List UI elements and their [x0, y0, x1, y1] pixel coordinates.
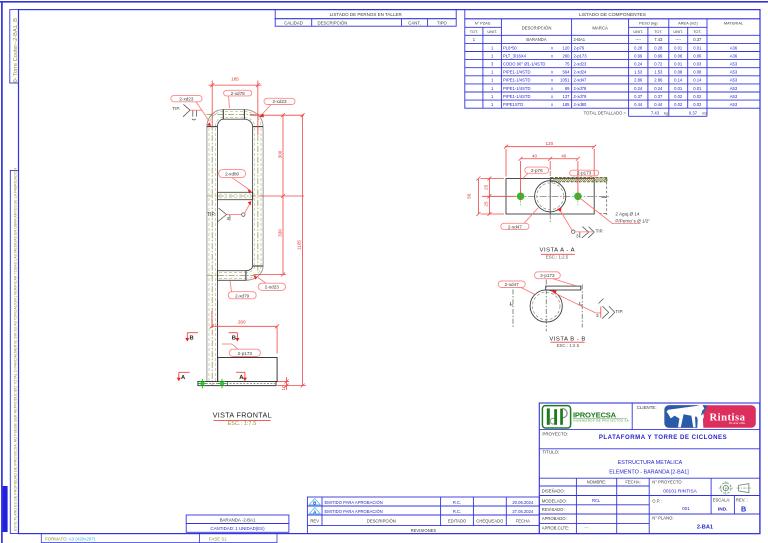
svg-text:PLT_3/16X4: PLT_3/16X4 [503, 53, 527, 58]
svg-text:REVISIONES: REVISIONES [411, 528, 437, 533]
svg-text:0.24: 0.24 [634, 86, 643, 91]
elbow top-left 2-xd23 inner [217, 119, 223, 126]
svg-text:TITULO:: TITULO: [542, 450, 559, 455]
svg-text:m2: m2 [702, 111, 707, 115]
svg-text:PIPE1-1/4STD: PIPE1-1/4STD [503, 86, 530, 91]
svg-text:TIP.: TIP. [596, 228, 604, 233]
svg-text:PL6*50: PL6*50 [503, 45, 517, 50]
svg-text:7.43: 7.43 [651, 110, 660, 115]
svg-text:UNIT.: UNIT. [673, 29, 683, 34]
svg-text:00101 RINTISA: 00101 RINTISA [663, 488, 697, 494]
svg-text:0.99: 0.99 [634, 53, 643, 58]
svg-text:2-xd23: 2-xd23 [272, 99, 286, 104]
pipe 2-xd47 section [535, 181, 566, 212]
svg-text:PIPE1-1/4STD: PIPE1-1/4STD [503, 70, 530, 75]
svg-text:A36: A36 [730, 53, 738, 58]
svg-text:40: 40 [561, 154, 567, 159]
svg-text:PESO (kg): PESO (kg) [639, 21, 658, 26]
svg-text:FORMATO: A3 (420x297): FORMATO: A3 (420x297) [45, 536, 96, 541]
weld arrow + leader [551, 290, 556, 294]
bottom rail 2-xd79 [218, 270, 246, 272]
svg-text:ESCALA:: ESCALA: [713, 498, 731, 503]
svg-text:2.86: 2.86 [654, 78, 663, 83]
dim line 1105 [302, 115, 304, 385]
right pipe 2-xd24 inner [252, 127, 254, 266]
svg-text:2-p76: 2-p76 [574, 45, 585, 50]
rev triangles [309, 499, 320, 505]
elbow hidden arcs BR [246, 266, 261, 278]
svg-text:PIPE1STD: PIPE1STD [503, 102, 523, 107]
svg-text:CODO 90° Ø1-1/4STD: CODO 90° Ø1-1/4STD [503, 62, 545, 67]
svg-text:IND.: IND. [718, 507, 728, 513]
label leaders red [196, 96, 271, 349]
svg-text:7.43: 7.43 [654, 37, 663, 42]
svg-text:N° PLANO:: N° PLANO: [652, 516, 673, 521]
svg-text:2-xd78: 2-xd78 [574, 86, 587, 91]
svg-text:PROYECTO:: PROYECTO: [542, 431, 568, 436]
right pipe 2-xd24 outer [262, 127, 264, 266]
svg-text:ESC.: 1:2.5: ESC.: 1:2.5 [557, 343, 580, 348]
svg-text:2-p76: 2-p76 [531, 168, 543, 173]
left post 2-xd47 inner [217, 127, 219, 382]
svg-text:2-p173: 2-p173 [574, 53, 588, 58]
svg-text:564: 564 [563, 70, 571, 75]
section mark A right [236, 372, 247, 381]
svg-text:VISTA B - B: VISTA B - B [549, 336, 586, 342]
svg-text:1.53: 1.53 [634, 70, 643, 75]
svg-text:10: 10 [281, 385, 286, 391]
svg-text:---: --- [584, 525, 589, 530]
svg-text:0.01: 0.01 [674, 45, 683, 50]
svg-text:TIP.: TIP. [172, 106, 180, 111]
svg-text:EMITIDO PARA APROBACIÓN: EMITIDO PARA APROBACIÓN [325, 509, 383, 514]
svg-text:0.01: 0.01 [693, 86, 702, 91]
svg-text:0.14: 0.14 [693, 78, 702, 83]
svg-text:B: B [313, 501, 316, 506]
svg-text:B: B [190, 336, 194, 342]
svg-text:NOMBRE:: NOMBRE: [587, 480, 607, 485]
svg-text:TIPO: TIPO [437, 20, 448, 25]
svg-text:0.28: 0.28 [634, 45, 643, 50]
projection symbols [721, 483, 749, 494]
svg-text:0.02: 0.02 [674, 102, 683, 107]
svg-text:2 Aguj.Ø 14: 2 Aguj.Ø 14 [615, 211, 639, 216]
svg-text:A36: A36 [730, 45, 738, 50]
svg-text:2-xd47: 2-xd47 [508, 224, 522, 229]
anchor marks green [198, 379, 226, 389]
right pipe 2-xd24 centerline [257, 114, 259, 272]
svg-text:75: 75 [565, 62, 570, 67]
50 [477, 179, 479, 215]
svg-text:CALIDAD: CALIDAD [284, 20, 303, 25]
elbow top-right 2-xd23 outer [244, 110, 263, 127]
svg-text:0.06: 0.06 [674, 53, 683, 58]
svg-text:APROBADO:: APROBADO: [542, 516, 567, 521]
svg-text:INGENIEROS DE PROYECTOS SA: INGENIEROS DE PROYECTOS SA [573, 418, 629, 422]
svg-text:EDITADO: EDITADO [448, 518, 467, 523]
logo Rintisa [664, 405, 755, 428]
120 [505, 146, 595, 148]
svg-text:APROB.CLTE:: APROB.CLTE: [542, 526, 569, 531]
svg-text:TOTAL DETALLADO =: TOTAL DETALLADO = [584, 110, 627, 115]
svg-text:VISTA FRONTAL: VISTA FRONTAL [213, 411, 272, 420]
svg-text:185: 185 [563, 102, 571, 107]
svg-text:MARCA: MARCA [592, 26, 608, 31]
dimensions red [209, 81, 307, 391]
svg-text:LISTADO DE COMPONENTES: LISTADO DE COMPONENTES [579, 12, 646, 18]
section mark B left [185, 333, 198, 342]
svg-text:REVISADO:: REVISADO: [542, 507, 565, 512]
svg-text:PLATAFORMA Y TORRE DE CICLONES: PLATAFORMA Y TORRE DE CICLONES [599, 434, 727, 441]
svg-text:0.02: 0.02 [693, 94, 702, 99]
lower grid texts [542, 480, 748, 531]
svg-text:DESCRIPCIÓN: DESCRIPCIÓN [522, 26, 552, 31]
svg-text:LISTADO DE PERNOS EN TALLER: LISTADO DE PERNOS EN TALLER [330, 12, 403, 17]
svg-text:ESTE PLANO ES DE PROPIEDAD DE: ESTE PLANO ES DE PROPIEDAD DE IPROYECSA,… [13, 168, 17, 531]
40 40 [521, 158, 578, 160]
svg-text:Rintisa: Rintisa [710, 413, 746, 424]
svg-text:2-xd80: 2-xd80 [225, 171, 239, 176]
svg-text:EMITIDO PARA APROBACIÓN: EMITIDO PARA APROBACIÓN [325, 500, 383, 505]
svg-text:0.37: 0.37 [634, 94, 643, 99]
left post 2-xd47 outer [206, 127, 208, 382]
svg-text:001: 001 [682, 506, 690, 511]
svg-text:A53: A53 [730, 94, 738, 99]
svg-text:FECHA: FECHA [516, 518, 530, 523]
svg-text:DESCRIPCIÓN: DESCRIPCIÓN [367, 518, 396, 523]
svg-text:P/Perno´s Ø 1/2": P/Perno´s Ø 1/2" [615, 218, 650, 223]
svg-text:TOT.: TOT. [693, 29, 701, 34]
svg-text:0.01: 0.01 [693, 45, 702, 50]
svg-text:A53: A53 [730, 86, 738, 91]
svg-text:2-xd24: 2-xd24 [574, 70, 587, 75]
svg-text:A53: A53 [730, 78, 738, 83]
dim 10 [278, 381, 290, 383]
svg-text:----: ---- [635, 37, 641, 42]
elbow hidden arcs TL [209, 112, 223, 127]
svg-text:PIPE1-1/4STD: PIPE1-1/4STD [503, 78, 530, 83]
svg-text:BARANDA: BARANDA [526, 37, 546, 42]
svg-text:0.08: 0.08 [693, 70, 702, 75]
weld joint lines [207, 109, 263, 280]
svg-text:MATERIAL: MATERIAL [724, 21, 744, 26]
mid rail 2-xd80 centerline [207, 195, 263, 197]
svg-text:40: 40 [532, 154, 538, 159]
svg-text:CANT.: CANT. [408, 20, 420, 25]
holes green [517, 188, 582, 206]
svg-text:UNIT.: UNIT. [633, 29, 643, 34]
TABLE COMPONENTES [465, 10, 760, 117]
dim 260 [211, 311, 213, 328]
mid rail 2-xd80 [218, 191, 253, 193]
svg-text:PIPE1-1/4STD: PIPE1-1/4STD [503, 94, 530, 99]
pipe outlines : outer profile light [207, 110, 263, 382]
weld symbol mid TIP 3 [218, 208, 245, 221]
svg-text:BARANDA -2-BA1: BARANDA -2-BA1 [220, 518, 256, 523]
svg-text:ELEMENTO - BARANDA [2-BA1]: ELEMENTO - BARANDA [2-BA1] [609, 470, 689, 476]
svg-text:2.86: 2.86 [634, 78, 643, 83]
svg-text:50: 50 [466, 193, 471, 199]
svg-text:2-p173: 2-p173 [577, 171, 592, 176]
dims [476, 145, 596, 216]
svg-text:260: 260 [563, 53, 571, 58]
weld leader + symbol [557, 208, 562, 213]
svg-text:0.44: 0.44 [654, 102, 663, 107]
TABLE PERNOS [275, 10, 456, 27]
plate 2-p173 edge [546, 286, 581, 290]
svg-text:0.72: 0.72 [654, 62, 663, 67]
svg-text:R.C.: R.C. [453, 509, 461, 514]
svg-text:TOT.: TOT. [470, 29, 478, 34]
pipe outlines : inner profile dark [217, 119, 252, 381]
hidden inner wall dashes [209, 112, 261, 382]
row BARANDA [473, 37, 702, 42]
svg-text:0.44: 0.44 [634, 102, 643, 107]
section mark A left [177, 372, 190, 381]
elbow top-left 2-xd23 outer [207, 110, 223, 127]
svg-text:0.06: 0.06 [693, 53, 702, 58]
svg-text:0.03: 0.03 [693, 62, 702, 67]
svg-text:A53: A53 [730, 102, 738, 107]
cat silhouette [697, 413, 704, 428]
svg-text:2-xd23: 2-xd23 [265, 285, 279, 290]
svg-text:1051: 1051 [560, 78, 570, 83]
SIDEBAR [3, 10, 19, 534]
svg-text:89: 89 [565, 86, 570, 91]
svg-text:kg: kg [664, 111, 668, 115]
25 25 [488, 179, 490, 215]
svg-text:0- Torre Cooler--2-BA1_B: 0- Torre Cooler--2-BA1_B [13, 18, 19, 83]
svg-text:R.C.: R.C. [453, 500, 461, 505]
plate 2-p173 side view [218, 358, 277, 382]
svg-text:UNIT.: UNIT. [487, 29, 497, 34]
svg-text:REV. :: REV. : [736, 498, 748, 503]
svg-text:O.P. :: O.P. : [652, 498, 662, 503]
elbow hidden arcs TR [244, 112, 261, 127]
vertical centerline through pipe [549, 179, 551, 215]
labels [498, 272, 560, 288]
svg-text:2-xd47: 2-xd47 [574, 78, 587, 83]
svg-text:2-xd80: 2-xd80 [574, 102, 587, 107]
plate 2-p173 hatched edge [551, 177, 607, 215]
svg-text:3: 3 [596, 313, 599, 318]
svg-text:2-xd79: 2-xd79 [574, 94, 587, 99]
right extension lines [250, 114, 304, 116]
elbow top-right 2-xd23 inner [244, 119, 252, 126]
svg-text:RCL: RCL [592, 498, 601, 503]
svg-text:2-BA1: 2-BA1 [574, 37, 586, 42]
svg-text:Por amor a Mía.: Por amor a Mía. [729, 422, 746, 425]
labels [501, 167, 599, 230]
dim line 300/330 [282, 115, 284, 274]
centerlines [207, 114, 265, 387]
svg-text:----: ---- [675, 37, 681, 42]
svg-text:3: 3 [576, 233, 579, 238]
dim 185 [211, 81, 213, 128]
svg-text:0.37: 0.37 [693, 37, 702, 42]
svg-text:25: 25 [484, 184, 489, 190]
svg-text:TIP.: TIP. [615, 309, 623, 314]
svg-text:0.24: 0.24 [654, 86, 663, 91]
svg-text:120: 120 [563, 45, 571, 50]
svg-text:185: 185 [231, 77, 239, 82]
svg-text:A53: A53 [730, 62, 738, 67]
top pipe 2-xd78 centerline [207, 113, 265, 115]
note 2 Aguj [581, 199, 641, 224]
svg-text:25: 25 [484, 201, 489, 207]
svg-text:N° PROYECTO: N° PROYECTO [652, 480, 682, 485]
svg-text:2-xd78: 2-xd78 [231, 91, 245, 96]
svg-text:A53: A53 [730, 70, 738, 75]
base plate 2-p76 [198, 382, 276, 386]
svg-text:2-p173: 2-p173 [238, 351, 253, 356]
svg-text:1105: 1105 [297, 240, 302, 250]
weld symbol top-left TIP [183, 104, 197, 120]
svg-text:20.06.2024: 20.06.2024 [512, 500, 534, 505]
svg-text:0.02: 0.02 [674, 94, 683, 99]
label ovals [171, 90, 295, 356]
svg-text:ESC.: 1:2.5: ESC.: 1:2.5 [546, 254, 569, 259]
svg-text:DESCRIPCIÓN: DESCRIPCIÓN [318, 20, 348, 25]
svg-text:2-BA1: 2-BA1 [697, 525, 713, 531]
svg-text:N° PZAS.: N° PZAS. [475, 21, 492, 26]
svg-text:FASE S1: FASE S1 [209, 536, 227, 541]
svg-text:137: 137 [563, 94, 571, 99]
svg-text:2-xd47: 2-xd47 [505, 282, 519, 287]
svg-text:1.53: 1.53 [654, 70, 663, 75]
svg-text:0.14: 0.14 [674, 78, 683, 83]
svg-text:TIP.: TIP. [207, 212, 216, 218]
bottom rail 2-xd79 centerline [207, 275, 256, 277]
svg-text:CHEQUEADO: CHEQUEADO [476, 518, 504, 523]
svg-text:0.02: 0.02 [693, 102, 702, 107]
post 2-xd47 centerline [211, 114, 213, 387]
svg-text:0.08: 0.08 [674, 70, 683, 75]
svg-text:0.01: 0.01 [674, 86, 683, 91]
svg-text:2-p173: 2-p173 [540, 273, 555, 278]
svg-text:260: 260 [238, 320, 246, 325]
svg-text:0.37: 0.37 [689, 110, 698, 115]
top pipe 2-xd78 bottom [223, 118, 244, 120]
svg-text:CANTIDAD: 1 UNIDAD(ES): CANTIDAD: 1 UNIDAD(ES) [210, 526, 265, 531]
section mark B right [229, 333, 240, 342]
svg-text:0.28: 0.28 [654, 45, 663, 50]
elbow bottom-right 2-xd23 inner [246, 266, 253, 271]
svg-text:2-xd79: 2-xd79 [235, 293, 249, 298]
elbow bottom-right 2-xd23 outer [246, 266, 263, 280]
horizontal centerline [493, 195, 610, 197]
svg-text:2-xd23: 2-xd23 [574, 62, 587, 67]
logo IPROYECSA [542, 406, 629, 428]
svg-text:TOT.: TOT. [654, 29, 662, 34]
svg-text:330: 330 [278, 229, 283, 237]
svg-text:AREA (m2): AREA (m2) [678, 21, 698, 26]
top pipe 2-xd78 top [223, 109, 244, 111]
svg-text:300: 300 [278, 150, 283, 158]
svg-text:ESTRUCTURA METALICA: ESTRUCTURA METALICA [618, 460, 683, 466]
svg-text:CLIENTE:: CLIENTE: [637, 405, 657, 410]
svg-text:0.37: 0.37 [654, 94, 663, 99]
svg-text:3: 3 [227, 216, 230, 221]
svg-text:VISTA A - A: VISTA A - A [540, 248, 576, 254]
svg-text:0.24: 0.24 [634, 62, 643, 67]
svg-text:DISEÑADO:: DISEÑADO: [542, 488, 565, 493]
svg-text:B: B [741, 505, 746, 514]
svg-text:MODELADO:: MODELADO: [542, 498, 567, 503]
centerlines [513, 280, 582, 332]
dog silhouette [667, 405, 705, 427]
svg-text:27.05.2024: 27.05.2024 [512, 509, 534, 514]
svg-text:2-xd23: 2-xd23 [179, 96, 193, 101]
pipe 2-xd47 section [530, 290, 562, 322]
svg-text:0.01: 0.01 [674, 62, 683, 67]
plate 2-p76 [506, 179, 594, 215]
svg-text:REV: REV [310, 518, 319, 523]
svg-text:B: B [232, 336, 236, 342]
svg-text:FECHA:: FECHA: [625, 480, 640, 485]
svg-text:120: 120 [545, 141, 553, 146]
svg-text:0.99: 0.99 [654, 53, 663, 58]
svg-text:ESC.: 1:7.5: ESC.: 1:7.5 [228, 421, 257, 427]
